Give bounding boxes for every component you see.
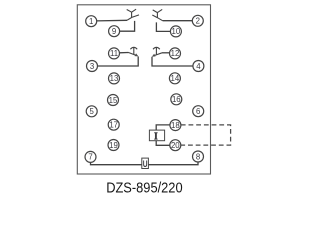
terminal 5 bbox=[86, 106, 97, 117]
svg-text:11: 11 bbox=[110, 49, 118, 58]
svg-text:1: 1 bbox=[89, 17, 93, 26]
svg-text:9: 9 bbox=[112, 27, 116, 36]
wire from terminal 4 to contact K4 fixed point bbox=[152, 57, 193, 66]
svg-text:13: 13 bbox=[110, 74, 119, 83]
wire from terminal 9 to contact K1 fixed point bbox=[120, 21, 135, 31]
wire from coil U to terminal 8 bbox=[148, 162, 198, 165]
terminal 20 bbox=[170, 140, 181, 151]
contact K2 time-delay fork symbol bbox=[153, 9, 163, 17]
terminal 8 bbox=[193, 151, 204, 162]
svg-text:20: 20 bbox=[171, 141, 180, 150]
wire from terminal 7 to coil U bbox=[91, 162, 142, 165]
terminal 16 bbox=[171, 94, 182, 105]
contact K2 moving blade (delayed contact, terminals 2-10) bbox=[152, 15, 162, 21]
contact K3 moving blade with arrowhead (terminals 11-3) bbox=[129, 53, 139, 57]
terminal 7 bbox=[85, 151, 96, 162]
svg-text:8: 8 bbox=[196, 152, 200, 161]
svg-text:3: 3 bbox=[90, 62, 94, 71]
terminal 3 bbox=[87, 61, 98, 72]
terminal 14 bbox=[169, 73, 180, 84]
svg-text:14: 14 bbox=[171, 74, 180, 83]
contact K4 moving blade with arrowhead (terminals 12-4) bbox=[152, 53, 162, 57]
signal element box I bbox=[149, 130, 164, 141]
wire from terminal 11 to contact K3 bbox=[119, 52, 128, 54]
terminal 2 bbox=[192, 15, 203, 26]
wire from terminal 1 to contact K1 bbox=[97, 19, 127, 22]
terminal 9 bbox=[109, 26, 120, 37]
contact K4 delay-on-release arc symbol bbox=[153, 47, 160, 54]
svg-text:17: 17 bbox=[109, 121, 118, 130]
terminal 1 bbox=[86, 16, 97, 27]
terminal 6 bbox=[193, 106, 204, 117]
terminal 10 bbox=[170, 26, 181, 37]
svg-text:16: 16 bbox=[172, 95, 181, 104]
contact K1 moving blade (delayed contact, terminals 1-9) bbox=[127, 15, 139, 20]
terminal 19 bbox=[108, 140, 119, 151]
caption DZS-895/220 bbox=[106, 181, 182, 197]
svg-text:12: 12 bbox=[171, 49, 180, 58]
contact K3 delay-on-release arc symbol bbox=[130, 47, 137, 54]
svg-text:10: 10 bbox=[172, 27, 181, 36]
terminal 11 bbox=[109, 48, 120, 59]
svg-text:DZS-895/220: DZS-895/220 bbox=[106, 181, 182, 197]
svg-text:2: 2 bbox=[196, 17, 200, 26]
terminal 13 bbox=[109, 73, 120, 84]
svg-text:5: 5 bbox=[90, 107, 95, 116]
wire from terminal 12 to contact K4 bbox=[162, 52, 170, 54]
svg-text:7: 7 bbox=[88, 153, 92, 162]
svg-text:4: 4 bbox=[196, 62, 201, 71]
terminal 4 bbox=[193, 61, 204, 72]
svg-text:6: 6 bbox=[196, 107, 200, 116]
svg-text:19: 19 bbox=[109, 141, 118, 150]
svg-text:15: 15 bbox=[109, 96, 118, 105]
svg-text:18: 18 bbox=[171, 121, 180, 130]
wire from element I bottom to terminal 20 bbox=[156, 141, 170, 146]
terminal 17 bbox=[108, 119, 119, 130]
wire from terminal 10 to contact K2 fixed point bbox=[156, 22, 170, 31]
wire from terminal 2 to contact K2 bbox=[163, 20, 193, 22]
relay case outline bbox=[77, 5, 210, 174]
terminal 18 bbox=[170, 120, 181, 131]
terminal 12 bbox=[170, 48, 181, 59]
terminal 15 bbox=[108, 95, 119, 106]
wire from terminal 3 to contact K3 fixed point bbox=[97, 57, 138, 67]
wire from element I top to terminal 18 bbox=[156, 125, 170, 130]
svg-text:U: U bbox=[143, 159, 148, 169]
coil element box U bbox=[142, 158, 149, 169]
external dashed link between terminals 18 and 20 bbox=[181, 125, 231, 145]
contact K1 time-delay fork symbol bbox=[127, 9, 136, 17]
